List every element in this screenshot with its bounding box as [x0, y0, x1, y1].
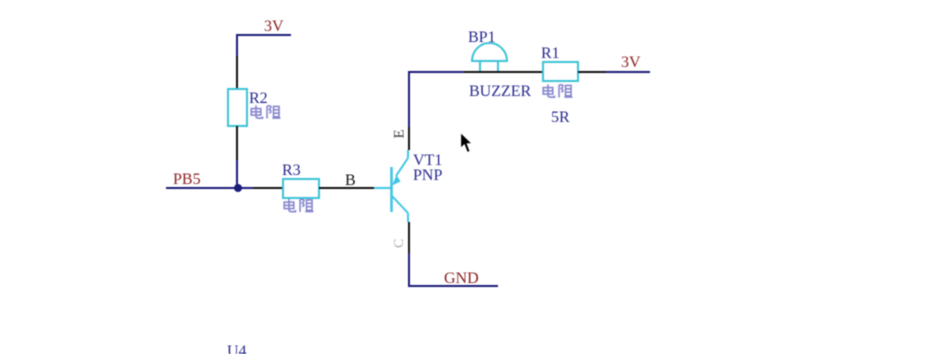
- value label 电阻 (R2): [251, 105, 280, 118]
- wire: emitter vertical black: [408, 127, 410, 150]
- wire: 3V left power drop vertical: [236, 34, 238, 56]
- junction node: [234, 184, 242, 192]
- buzzer BP1: [472, 43, 507, 71]
- wire: top horizontal black to R1: [464, 71, 543, 73]
- wire: emitter vertical navy up to corner: [408, 72, 410, 127]
- svg-text:C: C: [392, 239, 407, 248]
- wire: collector vertical black: [408, 222, 410, 253]
- resistor R2: [228, 89, 247, 126]
- resistor R3: [283, 179, 319, 198]
- value label 电阻 (R3): [284, 199, 313, 212]
- svg-text:B: B: [345, 172, 356, 189]
- svg-text:GND: GND: [444, 270, 479, 287]
- mouse cursor: [461, 133, 472, 153]
- svg-text:U4: U4: [227, 343, 247, 354]
- wire: R3 to transistor base: [319, 187, 374, 189]
- svg-text:E: E: [392, 129, 408, 138]
- wire: junction to R3: [253, 187, 283, 189]
- svg-text:BUZZER: BUZZER: [469, 83, 532, 100]
- svg-text:3V: 3V: [621, 54, 641, 71]
- svg-text:3V: 3V: [264, 18, 284, 35]
- wire: R1 right black: [578, 71, 606, 73]
- svg-text:PNP: PNP: [413, 167, 442, 184]
- svg-text:R3: R3: [282, 162, 301, 179]
- wire: GND horizontal: [408, 285, 498, 287]
- wire: R2 bottom vertical: [236, 126, 238, 160]
- wire: 3V left power rail horizontal: [237, 34, 291, 36]
- wire: top horizontal navy: [408, 71, 464, 73]
- value label 电阻 (R1): [543, 84, 572, 97]
- svg-text:5R: 5R: [551, 109, 570, 126]
- svg-text:PB5: PB5: [173, 171, 201, 188]
- wire: vertical into R2 top: [236, 56, 238, 90]
- wire: 3V right power navy: [606, 71, 650, 73]
- wire: collector vertical navy: [408, 253, 410, 287]
- svg-text:BP1: BP1: [468, 29, 496, 46]
- svg-text:R2: R2: [249, 90, 268, 107]
- wire: vertical into junction: [236, 160, 238, 188]
- wire: PB5 horizontal: [166, 187, 253, 189]
- transistor arrow: [392, 175, 401, 186]
- transistor VT1 (PNP): [374, 150, 408, 222]
- svg-text:R1: R1: [541, 45, 560, 62]
- resistor R1: [543, 62, 578, 81]
